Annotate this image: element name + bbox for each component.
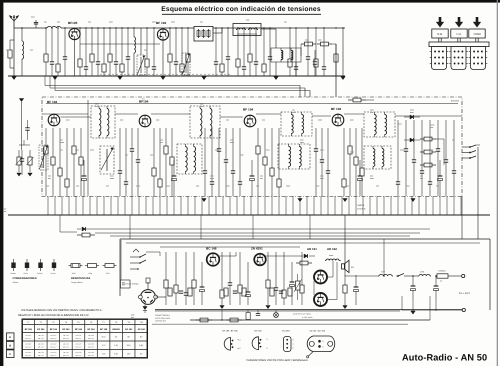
button TONO xyxy=(469,29,485,38)
svg-text:AM 1,1V: AM 1,1V xyxy=(25,337,32,340)
wire xyxy=(236,196,238,215)
electrolytic capacitor xyxy=(83,160,85,176)
resistor R63 xyxy=(344,275,346,285)
legend capacitor symbol xyxy=(53,259,55,263)
ground xyxy=(12,77,16,80)
wire down from mid xyxy=(344,215,346,276)
value label xyxy=(430,149,433,151)
electrolytic capacitor xyxy=(359,160,361,176)
voltage table frame xyxy=(22,319,148,358)
value label xyxy=(320,149,324,151)
svg-text:AM 1,1V: AM 1,1V xyxy=(63,346,70,349)
value label xyxy=(48,175,51,177)
resistor xyxy=(165,128,167,146)
resistor R71 xyxy=(226,319,230,321)
svg-text:AD 161: AD 161 xyxy=(307,247,317,251)
wire xyxy=(131,196,133,215)
ground xyxy=(53,77,57,80)
value label xyxy=(262,119,265,121)
capacitor xyxy=(437,120,439,149)
wire divider xyxy=(87,100,89,196)
wire xyxy=(300,44,302,56)
resistor xyxy=(91,28,93,54)
terminal xyxy=(462,308,465,311)
value label xyxy=(350,119,354,121)
svg-text:4Ω: 4Ω xyxy=(351,266,354,269)
bias potentiometer xyxy=(296,281,300,290)
wire xyxy=(115,113,138,115)
capacitor xyxy=(233,290,237,292)
value label xyxy=(284,21,287,23)
table column line xyxy=(121,319,123,358)
pinout AD tail xyxy=(309,352,314,356)
bus wire 3 xyxy=(55,90,310,92)
resistor xyxy=(168,288,172,296)
wire xyxy=(138,196,140,215)
ground xyxy=(202,77,206,80)
ground xyxy=(28,173,32,176)
resistor xyxy=(146,28,148,59)
capacitor C41 xyxy=(27,125,29,128)
wire xyxy=(82,196,84,215)
svg-text:FM 1,2V: FM 1,2V xyxy=(63,342,70,345)
capacitor xyxy=(153,28,155,67)
ground xyxy=(266,306,270,309)
value label xyxy=(430,124,434,126)
transistor BC148 T7 xyxy=(207,253,220,266)
wire xyxy=(256,113,281,115)
wire xyxy=(476,144,480,146)
capacitor xyxy=(218,128,220,149)
wire xyxy=(44,76,46,86)
button stem xyxy=(438,38,440,42)
svg-text:FM 1,2V: FM 1,2V xyxy=(38,334,45,337)
terminal xyxy=(462,274,465,277)
svg-text:BV520-B: BV520-B xyxy=(451,100,460,103)
legend resistor symbol xyxy=(85,265,88,267)
choke CH8 xyxy=(418,275,419,277)
wire xyxy=(89,196,91,215)
resistor xyxy=(73,128,75,146)
resistor R41 xyxy=(420,151,424,153)
svg-text:8V: 8V xyxy=(128,336,131,339)
wire xyxy=(376,196,378,215)
svg-text:C: C xyxy=(293,343,295,346)
wire xyxy=(47,196,49,215)
IF transformer FI5 xyxy=(281,112,312,136)
value label xyxy=(120,119,123,121)
coil L3 xyxy=(133,36,135,37)
svg-text:9,6V: 9,6V xyxy=(139,344,144,347)
wire xyxy=(120,240,122,280)
top supply rail xyxy=(14,27,46,29)
wire xyxy=(222,196,224,215)
capacitor xyxy=(97,28,99,62)
resistor xyxy=(193,252,195,280)
table row label C xyxy=(7,350,15,358)
value label xyxy=(318,119,322,121)
svg-text:O.M.: O.M. xyxy=(437,33,443,36)
ground xyxy=(220,306,224,309)
svg-text:12 ÷ 14 V: 12 ÷ 14 V xyxy=(459,292,470,295)
wire xyxy=(261,28,276,30)
bus wire 1 xyxy=(45,85,300,87)
wire xyxy=(446,196,448,215)
resistor xyxy=(278,128,280,179)
capacitor xyxy=(453,120,455,171)
value label xyxy=(316,185,319,187)
transistor BF194 xyxy=(157,29,168,40)
value label xyxy=(350,151,354,153)
svg-text:BC 148: BC 148 xyxy=(100,328,108,331)
button F.M. xyxy=(451,29,467,38)
wire xyxy=(124,196,126,215)
ground xyxy=(17,173,21,176)
resistor xyxy=(343,128,345,179)
wire xyxy=(355,196,357,215)
resistor xyxy=(349,128,351,146)
ground xyxy=(202,199,206,202)
resistor xyxy=(153,128,155,168)
resistor xyxy=(103,28,105,64)
diode D1 xyxy=(410,115,414,119)
svg-text:9,2V: 9,2V xyxy=(127,344,132,347)
svg-text:9,4V: 9,4V xyxy=(102,336,107,339)
ground rail top band xyxy=(8,75,345,77)
value label xyxy=(400,149,404,151)
wire xyxy=(201,196,203,215)
svg-text:FM 1,2V: FM 1,2V xyxy=(25,342,32,345)
trimmer CV1 xyxy=(137,55,145,75)
resistor xyxy=(175,252,177,285)
transistor BF194 T6 xyxy=(332,114,344,126)
pinout BC148 case xyxy=(252,337,258,350)
value label xyxy=(200,103,204,105)
wire xyxy=(180,196,182,215)
svg-text:2N4291: 2N4291 xyxy=(112,328,120,331)
svg-text:T4: T4 xyxy=(65,321,68,324)
bottom rail xyxy=(8,214,490,216)
legend capacitor symbol xyxy=(13,259,15,263)
svg-text:Tantalio: Tantalio xyxy=(10,272,16,275)
resistor xyxy=(249,28,251,54)
svg-text:TRANSISTORES VISTOS POR: TRANSISTORES VISTOS POR LADO TERMINALES xyxy=(246,359,308,362)
ground xyxy=(341,77,345,80)
svg-text:0V: 0V xyxy=(115,336,118,339)
svg-text:CONECTOR DIN: CONECTOR DIN xyxy=(155,314,170,317)
svg-text:FM 1,2V: FM 1,2V xyxy=(63,351,70,354)
electrolytic capacitor xyxy=(247,262,249,292)
value label xyxy=(370,109,374,111)
svg-text:AM 1,1V: AM 1,1V xyxy=(50,337,57,340)
wire xyxy=(221,310,223,320)
wire xyxy=(166,196,168,215)
svg-text:T6: T6 xyxy=(90,321,93,324)
value label xyxy=(410,109,414,111)
svg-text:LOCALE: LOCALE xyxy=(357,208,366,211)
ground xyxy=(274,77,278,80)
resistor xyxy=(221,28,223,64)
svg-text:T10: T10 xyxy=(139,321,143,324)
capacitor xyxy=(175,28,177,62)
value label xyxy=(226,185,230,187)
ground xyxy=(298,199,302,202)
value label xyxy=(260,175,263,177)
border top edge xyxy=(0,0,500,3)
svg-text:E: E xyxy=(323,345,325,348)
separator line xyxy=(152,323,408,325)
value label xyxy=(152,21,156,23)
value label xyxy=(171,21,175,23)
button arrow TONO xyxy=(476,17,479,22)
wire xyxy=(250,196,252,215)
audio section box top xyxy=(120,238,490,240)
wire xyxy=(453,196,455,215)
capacitor xyxy=(211,128,213,182)
wire xyxy=(436,138,444,140)
resistor R50 xyxy=(77,234,82,236)
capacitor xyxy=(115,28,117,62)
IF transformer FI6 xyxy=(364,112,395,137)
value label xyxy=(266,149,269,151)
wire xyxy=(383,196,385,215)
svg-text:NEGATIVO Y PARA UN VOLTAJE: NEGATIVO Y PARA UN VOLTAJE DE ALIMENTACI… xyxy=(18,314,89,317)
resistor xyxy=(181,28,183,64)
resistor R21 xyxy=(301,43,305,45)
table row line xyxy=(22,340,148,342)
svg-text:B: B xyxy=(9,344,11,347)
svg-text:FM 1,2V: FM 1,2V xyxy=(38,351,45,354)
wire xyxy=(146,251,160,253)
preset potentiometer P1 xyxy=(18,150,20,157)
svg-text:AM 1,1V: AM 1,1V xyxy=(38,354,45,357)
svg-text:T1: T1 xyxy=(27,321,30,324)
value label xyxy=(76,185,79,187)
wire xyxy=(369,196,371,215)
tuning capacitor CV3 xyxy=(39,145,48,170)
capacitor xyxy=(243,28,245,67)
oscillator coil block L5 xyxy=(177,144,202,174)
svg-text:FM 1,2V: FM 1,2V xyxy=(76,334,83,337)
pinout BF19x case xyxy=(224,338,230,351)
value label xyxy=(292,109,295,111)
resistor xyxy=(270,288,274,296)
svg-text:AM 1,1V: AM 1,1V xyxy=(76,337,83,340)
svg-text:C: C xyxy=(240,339,242,342)
diode D2 xyxy=(410,138,414,142)
wire xyxy=(264,196,266,215)
svg-text:AM 1,1V: AM 1,1V xyxy=(38,346,45,349)
value label xyxy=(131,314,134,316)
svg-text:FM 1,2V: FM 1,2V xyxy=(38,342,45,345)
IF transformer FI8 xyxy=(364,146,391,169)
wire xyxy=(62,27,194,29)
transistor BF194 T3 xyxy=(48,114,60,126)
resistor xyxy=(289,28,291,59)
electrolytic capacitor xyxy=(439,160,441,176)
value label xyxy=(60,139,63,141)
wire xyxy=(110,235,410,237)
wire xyxy=(271,196,273,215)
wire xyxy=(213,32,222,34)
border right edge line xyxy=(497,0,498,366)
svg-text:AJUSTE Ic 12V 10mA.: AJUSTE Ic 12V 10mA. xyxy=(293,313,312,316)
svg-text:Epoxi: Epoxi xyxy=(24,272,29,275)
svg-text:Ic 14V 15mA.: Ic 14V 15mA. xyxy=(302,316,313,319)
filter block FI2 xyxy=(271,48,301,62)
transistor AD162 T10 xyxy=(314,293,327,306)
value label xyxy=(156,119,159,121)
wire xyxy=(299,196,301,215)
capacitor C1 xyxy=(35,24,37,28)
resistor R30 xyxy=(348,99,353,101)
wire xyxy=(61,116,92,118)
wire xyxy=(366,99,374,101)
wire xyxy=(218,255,236,257)
wire xyxy=(309,215,311,239)
resistor R55 xyxy=(146,278,150,283)
resistor xyxy=(221,252,223,290)
connector bar xyxy=(429,42,489,47)
wire xyxy=(411,196,413,215)
resistor xyxy=(263,28,265,64)
value label xyxy=(109,21,113,23)
wire xyxy=(61,196,63,215)
wire xyxy=(362,196,364,215)
resistor xyxy=(79,28,81,59)
wire xyxy=(110,196,112,215)
terminal label box xyxy=(121,280,131,288)
capacitor xyxy=(232,128,234,171)
wire xyxy=(435,300,437,310)
wire xyxy=(140,46,142,55)
legend capacitor symbol xyxy=(26,259,28,263)
svg-text:10V: 10V xyxy=(127,353,131,356)
wire xyxy=(340,260,341,262)
pinout AD case xyxy=(307,336,335,352)
value label xyxy=(196,185,199,187)
capacitor xyxy=(445,120,447,160)
svg-text:0V: 0V xyxy=(140,353,143,356)
svg-text:FM 1,2V: FM 1,2V xyxy=(25,334,32,337)
value label xyxy=(406,185,409,187)
electrolytic capacitor C80 xyxy=(355,275,357,287)
resistor R22 xyxy=(317,43,321,45)
capacitor xyxy=(227,28,229,57)
electrolytic capacitor C91 xyxy=(435,276,437,286)
wire xyxy=(145,196,147,215)
capacitor xyxy=(307,28,309,57)
svg-text:1A: 1A xyxy=(440,280,443,283)
output choke CH6 xyxy=(325,260,326,262)
wire xyxy=(342,28,344,76)
wire xyxy=(103,196,105,215)
svg-text:BF 194: BF 194 xyxy=(156,21,166,25)
svg-text:AM 1,1V: AM 1,1V xyxy=(63,354,70,357)
bus wire 2 xyxy=(50,87,305,89)
value label xyxy=(106,185,109,187)
resistor xyxy=(171,128,173,157)
wire xyxy=(159,196,161,215)
resistor xyxy=(57,28,59,64)
wire bus right xyxy=(332,43,336,45)
input coil L1 xyxy=(46,27,47,29)
wire xyxy=(215,196,217,215)
wire xyxy=(95,232,420,234)
resistor xyxy=(169,28,171,54)
svg-text:AD 162: AD 162 xyxy=(327,247,337,251)
value label xyxy=(376,185,379,187)
svg-text:E: E xyxy=(9,336,11,339)
label vertical xyxy=(3,208,6,210)
wire IF bus xyxy=(46,103,458,105)
value label xyxy=(346,185,349,187)
value label xyxy=(30,49,33,51)
value label xyxy=(57,21,60,23)
svg-text:AM 1,1V: AM 1,1V xyxy=(50,354,57,357)
value label xyxy=(6,49,10,51)
wire xyxy=(151,113,190,115)
border left edge bar xyxy=(0,0,3,366)
svg-text:7,2V: 7,2V xyxy=(102,353,107,356)
wire xyxy=(395,115,462,117)
wire xyxy=(19,144,30,146)
value label xyxy=(46,185,49,187)
switch contacts input xyxy=(130,256,140,258)
electrolytic capacitor xyxy=(251,160,253,176)
resistor xyxy=(109,28,111,54)
wire DIN top xyxy=(147,282,149,290)
wire xyxy=(252,215,254,239)
svg-text:E: E xyxy=(293,347,295,350)
resistor xyxy=(237,28,239,59)
capacitor xyxy=(323,28,325,67)
wire xyxy=(21,102,23,150)
resistor xyxy=(159,128,161,179)
value label xyxy=(452,139,455,141)
svg-text:AM 1,1V: AM 1,1V xyxy=(88,346,95,349)
svg-text:Valores: Valores xyxy=(13,281,19,284)
capacitor xyxy=(429,120,431,182)
value label xyxy=(320,175,324,177)
capacitor xyxy=(315,128,317,149)
capacitor xyxy=(85,28,87,67)
svg-text:FUSIBLE: FUSIBLE xyxy=(438,270,447,273)
diode D4 xyxy=(82,227,86,231)
capacitor xyxy=(327,128,329,171)
resistor xyxy=(165,252,167,280)
capacitor xyxy=(119,128,121,171)
wire xyxy=(320,196,322,215)
resistor xyxy=(80,128,82,157)
resistor xyxy=(121,28,123,64)
value label xyxy=(90,149,94,151)
svg-text:1/2W: 1/2W xyxy=(88,272,92,275)
svg-text:C: C xyxy=(267,338,269,341)
wire xyxy=(295,62,297,76)
electrolytic capacitor xyxy=(173,160,175,176)
resistor xyxy=(257,128,259,146)
IF transformer FI4 xyxy=(190,106,220,138)
ground xyxy=(143,307,147,310)
wire xyxy=(327,196,329,215)
svg-text:BF 194: BF 194 xyxy=(75,328,83,331)
svg-text:FM 1,2V: FM 1,2V xyxy=(50,351,57,354)
wire xyxy=(68,196,70,215)
wire xyxy=(126,242,480,244)
choke CH7 xyxy=(378,275,379,277)
capacitor xyxy=(204,128,206,171)
